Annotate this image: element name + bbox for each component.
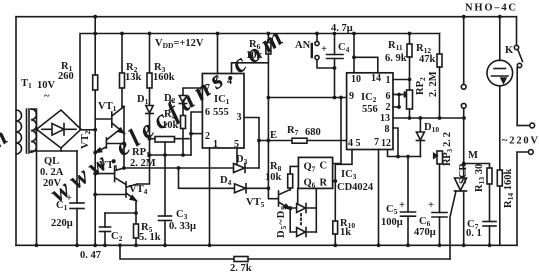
svg-text:C3: C3	[176, 209, 188, 221]
wire pin1 to R11	[393, 79, 410, 81]
wire reset input to R10 line	[333, 180, 336, 182]
resistor R7	[292, 138, 307, 143]
svg-text:9: 9	[349, 91, 354, 102]
watermark	[0, 23, 288, 208]
svg-text:160k: 160k	[153, 72, 175, 83]
resistor R8	[288, 174, 293, 190]
svg-text:7: 7	[374, 137, 379, 148]
node D3 line junctions	[177, 166, 181, 170]
wire pin2 line IC1	[191, 133, 202, 135]
svg-text:M: M	[468, 150, 478, 161]
svg-text:VDD=+12V: VDD=+12V	[155, 38, 204, 50]
wire M line to SCR	[463, 108, 465, 178]
node wiper ties	[397, 78, 411, 109]
svg-text:QL: QL	[44, 156, 59, 167]
svg-text:SCR: SCR	[458, 163, 469, 184]
potentiometer RP2	[399, 90, 413, 118]
transistor VT3	[95, 167, 126, 185]
node pin9 junctions	[333, 96, 343, 100]
svg-text:~: ~	[44, 91, 50, 102]
svg-text:2. 7k: 2. 7k	[230, 263, 252, 274]
svg-text:D4: D4	[220, 175, 232, 187]
svg-text:3: 3	[237, 112, 242, 123]
svg-text:C4: C4	[338, 42, 350, 54]
wire VT5 base drop	[268, 141, 278, 199]
diode D10	[416, 118, 424, 157]
node VT5 emitter junction	[288, 206, 292, 210]
wire D4 line	[179, 168, 269, 188]
svg-text:R11: R11	[388, 40, 403, 52]
node C5 junction	[406, 155, 410, 159]
node reset junction	[333, 179, 337, 183]
wire pins 4 5 drop to R10	[335, 150, 352, 222]
svg-text:~220V: ~220V	[502, 136, 538, 147]
switch K	[514, 17, 522, 126]
transistor VT2	[96, 129, 124, 153]
node AN to C4 junction	[333, 66, 337, 70]
svg-text:2. 2M: 2. 2M	[428, 71, 439, 97]
capacitor C2	[100, 213, 111, 245]
svg-text:R: R	[320, 178, 328, 189]
wire D9 line	[290, 231, 316, 233]
transformer T1	[16, 109, 36, 154]
svg-text:12: 12	[381, 138, 391, 149]
transistor VT1	[95, 107, 124, 134]
wire VDD to pin10	[353, 34, 355, 73]
wire VDD to pin14	[354, 57, 378, 73]
resistor R1	[93, 17, 98, 246]
node SCR anode junction	[462, 162, 466, 166]
svg-text:4. 7μ: 4. 7μ	[331, 23, 353, 34]
wire D3 line	[124, 167, 259, 169]
svg-text:2: 2	[205, 131, 210, 142]
svg-text:6. 9k: 6. 9k	[385, 53, 407, 64]
terminal 220V upper	[517, 123, 534, 128]
resistor R14	[497, 170, 502, 245]
diode D2	[179, 96, 186, 116]
resistor R4	[181, 116, 186, 156]
svg-text:10k: 10k	[265, 172, 282, 183]
svg-text:D3: D3	[236, 154, 248, 166]
wire left border	[15, 17, 17, 246]
capacitor C5	[401, 157, 416, 246]
wire pin6 pin2 link IC1	[191, 112, 202, 155]
node left rail junctions	[93, 128, 97, 197]
flip-flop box Q7 Q6 IC3	[298, 157, 332, 188]
diode D4	[235, 184, 247, 193]
wire pin8 line IC2	[393, 128, 398, 157]
capacitor C3	[159, 155, 172, 245]
svg-text:C5: C5	[386, 204, 398, 216]
svg-text:VT2: VT2	[80, 130, 92, 149]
diode D5	[297, 204, 306, 213]
transistor VT4	[95, 182, 137, 224]
connector plug lower	[461, 103, 466, 108]
svg-text:260: 260	[58, 71, 74, 82]
wire pin4 to R6	[232, 63, 269, 74]
capacitor C4	[327, 34, 344, 98]
svg-text:D5~D9: D5~D9	[276, 206, 288, 238]
thyristor SCR	[450, 178, 467, 259]
svg-text:VT4: VT4	[129, 184, 148, 196]
svg-text:RP3 2. 2: RP3 2. 2	[442, 132, 454, 166]
node top border junctions	[93, 15, 501, 19]
svg-text:220μ: 220μ	[51, 218, 73, 229]
svg-text:0. 47: 0. 47	[80, 250, 101, 261]
resistor R2	[120, 34, 125, 107]
wire plug line from top	[463, 17, 465, 85]
svg-text:1: 1	[386, 75, 391, 86]
wire RP1 wiper line	[150, 154, 192, 156]
connector plug upper	[461, 84, 466, 89]
node E junctions	[257, 139, 270, 143]
svg-text:555: 555	[213, 107, 229, 118]
svg-text:IC3: IC3	[341, 169, 357, 181]
svg-text:6: 6	[205, 107, 210, 118]
wire feedback 2.7k line	[120, 245, 450, 259]
wire Q box drops	[297, 188, 299, 208]
svg-text:5: 5	[234, 139, 239, 150]
wire pin7 line IC1	[183, 88, 202, 96]
diode D3	[234, 164, 246, 173]
wire pin6 to wiper	[393, 94, 399, 96]
node bridge left corner	[35, 127, 39, 131]
resistor R10	[333, 221, 338, 245]
wire pin5 drop IC1	[236, 148, 238, 164]
svg-text:D10: D10	[424, 122, 439, 134]
diode D9	[297, 228, 306, 237]
node pin13 junctions	[408, 116, 466, 120]
svg-text:47k: 47k	[419, 54, 436, 65]
wire bridge output to VT rail	[81, 129, 95, 131]
potentiometer RP1	[150, 137, 190, 156]
capacitor C6	[432, 213, 447, 246]
svg-text:om: om	[0, 122, 13, 165]
svg-text:100μ: 100μ	[381, 217, 403, 228]
push button AN	[312, 34, 335, 69]
wire secondary top to bridge left corner and down to bottom border	[31, 109, 37, 245]
wire pin2 to wiper	[393, 106, 399, 108]
svg-text:0. 1: 0. 1	[466, 228, 482, 239]
svg-text:C2: C2	[111, 231, 123, 243]
svg-text:D1: D1	[137, 94, 149, 106]
wire IC3 clock drop	[333, 98, 341, 164]
svg-text:556: 556	[362, 104, 378, 115]
terminal 220V lower	[517, 150, 533, 246]
wire secondary bottom to bridge bottom corner	[31, 148, 61, 152]
node bottom border junctions	[35, 243, 492, 247]
svg-text:2: 2	[386, 102, 391, 113]
wire R3 branch down to VT4 collector feed	[138, 139, 150, 184]
svg-text:2. 2M: 2. 2M	[130, 158, 156, 169]
svg-text:C: C	[320, 161, 328, 172]
op-amp IC1 555 box	[202, 74, 244, 149]
node D4 junction	[267, 186, 271, 190]
wire pin9 line IC2	[268, 97, 346, 99]
svg-text:+: +	[399, 200, 405, 211]
wire top border	[16, 16, 517, 18]
node VT rail junctions	[122, 142, 126, 170]
svg-text:R14 160k: R14 160k	[503, 169, 515, 208]
svg-text:E: E	[270, 130, 277, 141]
svg-text:RP2: RP2	[415, 77, 427, 95]
svg-text:8: 8	[385, 124, 390, 135]
wire E line to IC2	[259, 140, 347, 142]
svg-text:AN: AN	[295, 40, 311, 51]
wire pin8 to rail	[217, 34, 219, 74]
svg-text:+: +	[321, 44, 327, 55]
wire pin1 drop IC1	[209, 148, 211, 245]
node pin2 junction	[189, 132, 193, 136]
resistor R5	[134, 224, 139, 245]
wire VDD rail	[80, 34, 440, 130]
svg-text:4 5: 4 5	[348, 138, 361, 149]
wire Q7 to R8	[290, 166, 298, 174]
wire pin13 line IC2	[393, 117, 464, 119]
node wiper junctions	[148, 137, 185, 157]
svg-text:CD4024: CD4024	[337, 182, 374, 193]
wire pin12 line	[388, 150, 421, 157]
resistor R3	[147, 34, 152, 106]
lamp load	[487, 17, 513, 170]
resistor R6	[266, 34, 271, 141]
svg-text:+: +	[428, 200, 434, 211]
wire emitter node to C2	[105, 212, 136, 214]
diode D1	[146, 106, 153, 139]
svg-text:10V: 10V	[37, 80, 56, 91]
capacitor C7	[483, 222, 496, 246]
svg-text:14: 14	[371, 73, 381, 84]
svg-text:T1: T1	[21, 78, 32, 90]
wire D5 line	[290, 207, 316, 209]
svg-text:0. 33μ: 0. 33μ	[169, 221, 196, 232]
wire pin3 to E node	[244, 118, 259, 169]
svg-text:13k: 13k	[125, 72, 142, 83]
wire R13 branch	[464, 164, 490, 169]
wire wiper tie	[398, 95, 400, 108]
resistor R11	[407, 34, 412, 91]
resistor 2.7k	[234, 257, 248, 262]
potentiometer RP3	[434, 151, 443, 213]
capacitor C1	[70, 151, 84, 245]
svg-text:470μ: 470μ	[414, 227, 436, 238]
svg-text:VT5: VT5	[246, 197, 265, 209]
op-amp IC2 556 box	[347, 73, 393, 150]
wire bridge bottom path to C1	[61, 150, 77, 152]
svg-text:NHO–4C: NHO–4C	[465, 3, 516, 14]
resistor R13	[487, 168, 492, 222]
svg-text:13: 13	[380, 113, 390, 124]
svg-text:680: 680	[305, 127, 321, 138]
wire dotted chain	[300, 214, 302, 227]
svg-text:R13 30: R13 30	[474, 164, 486, 192]
svg-text:1k: 1k	[340, 227, 351, 238]
node pin8 junction	[396, 155, 400, 159]
svg-text:K: K	[505, 45, 514, 56]
transistor VT5	[279, 190, 291, 233]
bridge rectifier QL	[37, 110, 82, 148]
wire VT1 collector emitter rail	[123, 107, 125, 169]
wire pin7 drop IC2	[378, 150, 380, 246]
node emitter junction	[134, 211, 138, 215]
svg-text:6: 6	[386, 91, 391, 102]
node VDD junctions	[93, 32, 411, 36]
svg-text:R7: R7	[287, 125, 299, 137]
svg-text:1: 1	[213, 139, 218, 150]
svg-text:VT1: VT1	[98, 101, 117, 113]
resistor R12	[437, 34, 442, 119]
wire bottom border	[16, 244, 517, 246]
node pin10 junction	[352, 55, 356, 59]
svg-text:5. 1k: 5. 1k	[139, 232, 161, 243]
svg-text:10: 10	[351, 74, 361, 85]
